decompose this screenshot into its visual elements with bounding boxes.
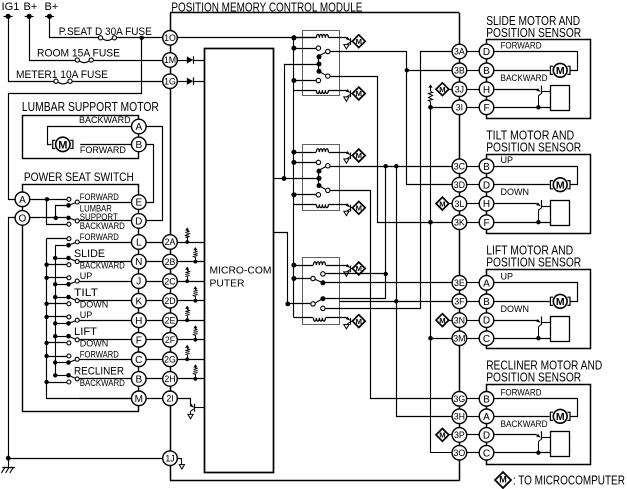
svg-text:B: B xyxy=(483,297,490,308)
svg-text:M: M xyxy=(135,394,143,405)
svg-text:M: M xyxy=(356,264,362,273)
svg-text:BACKWARD: BACKWARD xyxy=(501,419,548,429)
svg-text:MICRO-COM: MICRO-COM xyxy=(210,265,272,276)
svg-text:2D: 2D xyxy=(164,296,175,306)
svg-text:1J: 1J xyxy=(165,453,174,463)
svg-text:A: A xyxy=(483,412,490,423)
svg-text:B+: B+ xyxy=(45,1,59,13)
svg-text:D: D xyxy=(483,47,490,58)
svg-text:M: M xyxy=(499,475,507,485)
svg-text:H: H xyxy=(483,199,490,210)
svg-text:D: D xyxy=(483,180,490,191)
svg-text:DOWN: DOWN xyxy=(501,304,530,314)
svg-text:3H: 3H xyxy=(454,412,465,422)
svg-text:FORWARD: FORWARD xyxy=(501,40,542,50)
svg-text:M: M xyxy=(556,411,565,423)
svg-text:M: M xyxy=(356,89,362,98)
svg-text:B+: B+ xyxy=(24,1,38,13)
svg-text:A: A xyxy=(483,278,490,289)
svg-text:B: B xyxy=(483,66,490,77)
svg-text:B: B xyxy=(135,140,142,151)
svg-text:POWER SEAT SWITCH: POWER SEAT SWITCH xyxy=(24,170,134,184)
svg-text:F: F xyxy=(483,218,489,229)
svg-text:F: F xyxy=(136,335,142,346)
svg-text:B: B xyxy=(135,375,142,386)
svg-text:H: H xyxy=(135,316,142,327)
svg-text:M: M xyxy=(356,151,362,160)
svg-text:LIFT: LIFT xyxy=(74,326,97,338)
svg-text:PUTER: PUTER xyxy=(210,278,245,289)
svg-text:DOWN: DOWN xyxy=(80,300,109,310)
svg-text:M: M xyxy=(356,317,362,326)
svg-text:IG1: IG1 xyxy=(2,1,20,13)
svg-text:J: J xyxy=(136,277,141,288)
svg-text:UP: UP xyxy=(501,272,514,282)
svg-text:3O: 3O xyxy=(454,448,466,458)
svg-text:3N: 3N xyxy=(454,315,465,325)
svg-text:M: M xyxy=(356,37,362,46)
svg-text:UP: UP xyxy=(80,310,93,320)
svg-text:M: M xyxy=(439,431,445,440)
svg-text:3J: 3J xyxy=(455,84,464,94)
svg-text:M: M xyxy=(439,316,445,325)
svg-text:FORWARD: FORWARD xyxy=(80,145,126,155)
svg-text:POSITION SENSOR: POSITION SENSOR xyxy=(486,140,581,154)
svg-text:3B: 3B xyxy=(454,66,465,76)
svg-text:DOWN: DOWN xyxy=(501,187,530,197)
svg-text:2B: 2B xyxy=(165,257,176,267)
svg-text:SLIDE: SLIDE xyxy=(74,248,105,260)
svg-text:TILT: TILT xyxy=(74,287,98,299)
svg-text:3I: 3I xyxy=(456,103,463,113)
svg-text:LUMBAR SUPPORT MOTOR: LUMBAR SUPPORT MOTOR xyxy=(22,100,159,114)
svg-text:2C: 2C xyxy=(164,276,176,286)
svg-text:1G: 1G xyxy=(164,76,176,86)
svg-text:BACKWARD: BACKWARD xyxy=(80,378,125,388)
svg-text:3P: 3P xyxy=(454,430,465,440)
svg-text:C: C xyxy=(483,334,490,345)
svg-text:C: C xyxy=(135,355,142,366)
svg-text:3A: 3A xyxy=(454,47,465,57)
svg-text:3C: 3C xyxy=(454,161,466,171)
svg-text:METER1 10A FUSE: METER1 10A FUSE xyxy=(16,69,108,81)
svg-text:ROOM 15A FUSE: ROOM 15A FUSE xyxy=(37,48,120,60)
svg-text:BACKWARD: BACKWARD xyxy=(80,261,125,271)
svg-text:3F: 3F xyxy=(454,297,465,307)
svg-text:UP: UP xyxy=(501,155,514,165)
svg-text:POSITION SENSOR: POSITION SENSOR xyxy=(486,26,581,40)
svg-text:BACKWARD: BACKWARD xyxy=(501,73,548,83)
svg-text:FORWARD: FORWARD xyxy=(80,192,119,202)
svg-text:1M: 1M xyxy=(164,55,176,65)
svg-text:M: M xyxy=(439,199,445,208)
svg-text:D: D xyxy=(483,431,490,442)
svg-text:L: L xyxy=(136,238,142,249)
svg-text:3L: 3L xyxy=(455,199,465,209)
svg-text:B: B xyxy=(483,394,490,405)
svg-text:2I: 2I xyxy=(166,394,173,404)
svg-text:RECLINER: RECLINER xyxy=(74,365,124,377)
svg-text:: TO MICROCOMPUTER: : TO MICROCOMPUTER xyxy=(513,473,625,487)
svg-text:A: A xyxy=(19,195,26,206)
svg-text:P.SEAT D 30A FUSE: P.SEAT D 30A FUSE xyxy=(59,26,152,38)
svg-text:DOWN: DOWN xyxy=(80,339,109,349)
svg-text:N: N xyxy=(135,257,142,268)
svg-text:M: M xyxy=(556,180,565,192)
svg-text:M: M xyxy=(556,296,565,308)
svg-text:BACKWARD: BACKWARD xyxy=(80,221,125,231)
svg-text:3D: 3D xyxy=(454,180,465,190)
svg-text:H: H xyxy=(483,85,490,96)
svg-text:3M: 3M xyxy=(453,333,465,343)
svg-text:2H: 2H xyxy=(164,374,175,384)
svg-text:D: D xyxy=(483,316,490,327)
svg-text:3G: 3G xyxy=(454,394,466,404)
svg-text:M: M xyxy=(356,204,362,213)
svg-text:3K: 3K xyxy=(454,217,465,227)
svg-text:E: E xyxy=(135,198,142,209)
svg-text:K: K xyxy=(135,296,142,307)
svg-text:C: C xyxy=(483,448,490,459)
svg-text:M: M xyxy=(58,139,67,151)
svg-text:FORWARD: FORWARD xyxy=(80,232,119,242)
svg-text:B: B xyxy=(483,162,490,173)
svg-text:2G: 2G xyxy=(164,355,176,365)
svg-text:UP: UP xyxy=(80,271,93,281)
svg-text:D: D xyxy=(135,217,142,228)
svg-text:2A: 2A xyxy=(165,237,176,247)
svg-text:2F: 2F xyxy=(165,335,176,345)
svg-text:POSITION SENSOR: POSITION SENSOR xyxy=(486,255,581,269)
svg-text:3E: 3E xyxy=(454,278,465,288)
svg-text:2E: 2E xyxy=(165,315,176,325)
svg-text:M: M xyxy=(439,85,445,94)
svg-text:F: F xyxy=(483,103,489,114)
svg-text:FORWARD: FORWARD xyxy=(501,388,542,398)
svg-text:O: O xyxy=(19,214,27,225)
svg-text:FORWARD: FORWARD xyxy=(80,349,119,359)
svg-text:POSITION SENSOR: POSITION SENSOR xyxy=(486,371,581,385)
svg-text:A: A xyxy=(135,122,142,133)
svg-text:BACKWARD: BACKWARD xyxy=(79,115,131,125)
svg-text:1O: 1O xyxy=(164,33,176,43)
svg-text:M: M xyxy=(556,65,565,77)
